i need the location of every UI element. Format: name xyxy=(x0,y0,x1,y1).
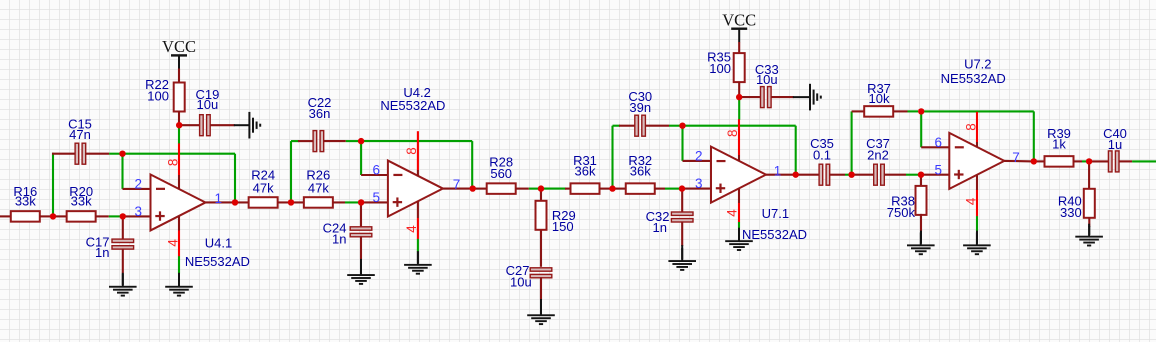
U7.2 pin 8 xyxy=(976,112,978,142)
junction xyxy=(679,123,685,129)
wire stub C15 right xyxy=(85,153,109,155)
capacitor C27 xyxy=(530,268,552,271)
op-amp U4.2 xyxy=(388,161,443,217)
svg-text:8: 8 xyxy=(166,159,181,167)
wire node N feedback right xyxy=(921,110,1034,112)
svg-text:10u: 10u xyxy=(197,97,219,112)
svg-text:1k: 1k xyxy=(1052,136,1066,151)
wire C19 to ground xyxy=(210,124,235,126)
wire R29 to C27 xyxy=(540,231,542,267)
svg-text:1: 1 xyxy=(774,163,782,178)
U7.1 pin 4 xyxy=(738,188,740,203)
wire output net xyxy=(1132,160,1156,162)
svg-text:8: 8 xyxy=(404,147,419,155)
junction xyxy=(288,199,294,205)
wire into pin 6 xyxy=(361,174,388,176)
svg-text:1: 1 xyxy=(215,191,223,206)
ground for C32 xyxy=(681,245,683,259)
capacitor C30 xyxy=(635,115,639,136)
svg-text:560: 560 xyxy=(490,166,512,181)
svg-text:330: 330 xyxy=(1060,205,1082,220)
wire node H down to R29 xyxy=(540,189,542,203)
capacitor C17 xyxy=(112,239,134,242)
wire VCC to R22 xyxy=(178,69,180,84)
svg-text:4: 4 xyxy=(724,209,739,217)
svg-text:4: 4 xyxy=(165,239,180,247)
wire R16 to node A xyxy=(40,215,51,217)
wire node M up to R37 xyxy=(851,111,853,174)
svg-text:U7.2: U7.2 xyxy=(964,56,991,71)
svg-text:47n: 47n xyxy=(69,127,91,142)
svg-text:NE5532AD: NE5532AD xyxy=(380,98,445,113)
svg-text:10u: 10u xyxy=(510,274,532,289)
resistor R39 xyxy=(1045,156,1074,167)
wire R35 to node L xyxy=(738,82,740,96)
svg-text:U7.1: U7.1 xyxy=(762,206,789,221)
junction xyxy=(358,199,364,205)
wire to R39 xyxy=(1034,160,1045,162)
junction xyxy=(176,122,182,128)
resistor R38 xyxy=(916,186,927,215)
wire stub C40 right xyxy=(1119,160,1132,162)
wire pin 4 to ground xyxy=(417,239,419,252)
capacitor C37 xyxy=(874,164,878,185)
resistor R29 xyxy=(536,201,547,230)
svg-text:47k: 47k xyxy=(308,181,329,196)
wire into pin 5 xyxy=(921,174,949,176)
resistor R28 xyxy=(487,183,516,194)
junction xyxy=(918,108,924,114)
svg-text:1n: 1n xyxy=(95,245,109,260)
ground for R40 xyxy=(1088,226,1090,235)
svg-text:36k: 36k xyxy=(630,164,651,179)
U4.1 pin 1 xyxy=(206,201,236,203)
wire R37 right xyxy=(893,110,907,112)
wire green to node C xyxy=(109,215,121,217)
svg-text:1n: 1n xyxy=(653,220,667,235)
ground for C24 xyxy=(360,259,362,274)
svg-text:VCC: VCC xyxy=(722,10,756,29)
wire green to node K xyxy=(665,188,679,190)
wire green to node G xyxy=(345,201,359,203)
U7.1 pin 1 xyxy=(766,174,796,176)
wire node K down to C32 xyxy=(681,189,683,213)
resistor R31 xyxy=(571,183,600,194)
capacitor C24 xyxy=(350,227,372,230)
svg-text:750k: 750k xyxy=(887,205,916,220)
wire node P to C40 xyxy=(1089,160,1108,162)
wire node B down to pin2 xyxy=(121,154,123,189)
ground for C17 xyxy=(122,273,124,285)
wire stub C30 right xyxy=(645,125,669,127)
svg-text:3: 3 xyxy=(134,204,142,219)
wire feedback down to output xyxy=(795,126,797,175)
wire C15 to node B xyxy=(109,153,122,155)
wire node P down to R40 xyxy=(1088,161,1090,189)
wire VCC to R35 xyxy=(738,42,740,54)
wire node M to C37 xyxy=(852,174,874,176)
capacitor C15 xyxy=(75,143,79,164)
wire node B feedback to output xyxy=(123,153,236,155)
svg-text:10k: 10k xyxy=(869,91,890,106)
svg-text:2n2: 2n2 xyxy=(867,148,889,163)
wire green to node O xyxy=(906,174,918,176)
wire into pin 2 xyxy=(683,160,712,162)
wire green to node P xyxy=(1082,160,1087,162)
wire C22 to node F xyxy=(346,140,361,142)
ground for C27 xyxy=(540,299,542,314)
U4.1 pin 8 xyxy=(178,143,180,175)
svg-text:1n: 1n xyxy=(332,232,346,247)
op-amp U7.1 xyxy=(711,147,766,203)
resistor R22 xyxy=(174,83,185,112)
wire node F feedback right xyxy=(361,140,472,142)
wire node H to R31 xyxy=(543,188,566,190)
junction xyxy=(470,185,476,191)
junction xyxy=(736,94,742,100)
wire stub C22 left xyxy=(291,140,299,142)
resistor R24 xyxy=(249,197,278,208)
svg-text:6: 6 xyxy=(934,135,942,150)
ground for U4.2 pin 4 xyxy=(417,251,419,263)
op-amp U7.2 xyxy=(949,133,1004,189)
junction xyxy=(793,171,799,177)
capacitor C19 xyxy=(200,115,204,136)
wire C24 to ground xyxy=(360,236,362,259)
svg-text:8: 8 xyxy=(963,123,978,131)
wire green to node N xyxy=(908,110,919,112)
capacitor C32 xyxy=(671,212,693,215)
wire node F down to pin 6 xyxy=(360,141,362,175)
wire input net xyxy=(0,215,11,217)
U7.1 pin 8 xyxy=(738,119,740,155)
svg-text:2: 2 xyxy=(134,177,142,192)
ground for U7.1 pin 4 xyxy=(738,228,740,240)
wire node A to R20 xyxy=(53,215,67,217)
svg-text:7: 7 xyxy=(453,177,461,192)
wire into R37 xyxy=(852,110,865,112)
junction xyxy=(232,199,238,205)
U7.2 pin 4 xyxy=(976,175,978,190)
wire R31 to node I xyxy=(600,188,612,190)
resistor R35 xyxy=(734,53,745,82)
svg-text:100: 100 xyxy=(709,61,731,76)
junction xyxy=(538,185,544,191)
svg-text:10u: 10u xyxy=(756,72,778,87)
wire into pin 6 xyxy=(921,146,949,148)
wire pin 4 to ground xyxy=(178,256,180,273)
wire R38 to ground xyxy=(920,214,922,231)
svg-text:4: 4 xyxy=(404,225,419,233)
wire node J feedback right xyxy=(683,125,796,127)
svg-text:U4.1: U4.1 xyxy=(205,236,232,251)
wire green to node H xyxy=(529,188,539,190)
wire R22 to node D xyxy=(178,111,180,124)
wire C17 to ground xyxy=(122,249,124,274)
wire node L down to pin 8 xyxy=(738,98,740,120)
svg-text:5: 5 xyxy=(934,162,942,177)
wire pin 4 to ground xyxy=(976,216,978,231)
U7.2 pin 7 xyxy=(1004,160,1034,163)
junction xyxy=(848,172,854,178)
capacitor C22 xyxy=(313,131,317,152)
wire R40 to ground xyxy=(1088,217,1090,227)
resistor R37 xyxy=(864,106,893,117)
ground for U4.1 pin 4 xyxy=(178,273,180,285)
wire node N down to pin 6 xyxy=(920,111,922,147)
svg-text:36k: 36k xyxy=(575,164,596,179)
svg-text:5: 5 xyxy=(372,190,380,205)
op-amp U4.1 xyxy=(151,174,206,230)
wire node D down to pin 8 xyxy=(178,126,180,144)
capacitor C33 xyxy=(761,87,765,108)
wire node E up to C22 xyxy=(290,141,292,202)
wire node I to R32 xyxy=(613,188,626,190)
wire node I up to C30 xyxy=(611,126,613,189)
wire node E to R26 xyxy=(291,201,304,203)
wire C27 to ground xyxy=(540,277,542,300)
wire R24 right xyxy=(278,201,288,203)
wire stage1 out to R24 xyxy=(235,201,249,203)
wire C30 to node J xyxy=(669,125,681,127)
resistor R32 xyxy=(626,183,655,194)
svg-text:2: 2 xyxy=(695,149,703,164)
wire stage3 out to C35 xyxy=(796,174,820,176)
wire node O down to R38 xyxy=(920,175,922,188)
wire stub C15 left xyxy=(52,153,75,155)
wire feedback down to output node xyxy=(234,154,236,203)
wire into pin 5 xyxy=(361,201,388,203)
svg-text:33k: 33k xyxy=(15,194,36,209)
svg-text:39n: 39n xyxy=(629,100,651,115)
ground for R38 xyxy=(920,231,922,244)
wire R28 right xyxy=(516,188,529,190)
svg-text:NE5532AD: NE5532AD xyxy=(941,71,1006,86)
wire C33 to ground xyxy=(771,96,794,98)
wire stub C30 left xyxy=(613,125,621,127)
junction xyxy=(119,151,125,157)
ground for C19 xyxy=(234,124,249,126)
junction xyxy=(1031,158,1037,164)
wire R32 right xyxy=(655,188,665,190)
resistor R16 xyxy=(11,211,40,222)
svg-text:0.1: 0.1 xyxy=(813,148,831,163)
junction xyxy=(918,172,924,178)
wire node A up to C15 xyxy=(52,153,54,218)
wire stage2 out to R28 xyxy=(473,188,487,190)
wire node J down to pin 2 xyxy=(681,126,683,161)
junction xyxy=(120,213,126,219)
wire into pin 3 xyxy=(123,215,151,217)
svg-text:3: 3 xyxy=(695,176,703,191)
wire node G down to C24 xyxy=(360,202,362,227)
wire C32 to ground xyxy=(681,222,683,246)
junction xyxy=(1086,158,1092,164)
svg-text:36n: 36n xyxy=(309,106,331,121)
wire R26 right xyxy=(333,201,345,203)
U4.2 pin 7 xyxy=(443,188,473,190)
svg-text:47k: 47k xyxy=(253,181,274,196)
capacitor C40 xyxy=(1108,151,1112,172)
svg-text:100: 100 xyxy=(147,89,169,104)
svg-text:6: 6 xyxy=(372,163,380,178)
capacitor C35 xyxy=(819,164,823,185)
U4.2 pin 8 xyxy=(417,131,419,170)
wire R39 right xyxy=(1074,160,1083,162)
junction xyxy=(358,138,364,144)
svg-text:8: 8 xyxy=(725,129,740,137)
ground for U7.2 pin 4 xyxy=(976,231,978,244)
ground for C33 xyxy=(793,96,810,98)
wire stub C19 left xyxy=(179,124,200,126)
svg-text:NE5532AD: NE5532AD xyxy=(185,254,250,269)
svg-text:1u: 1u xyxy=(1108,137,1122,152)
svg-text:7: 7 xyxy=(1012,150,1020,165)
resistor R20 xyxy=(67,211,96,222)
wire green to node M xyxy=(845,174,849,176)
U4.2 pin 4 xyxy=(417,201,419,218)
junction xyxy=(609,185,615,191)
resistor R40 xyxy=(1084,189,1095,218)
wire stub C33 left xyxy=(739,96,760,98)
wire into pin 3 xyxy=(682,188,711,190)
svg-text:33k: 33k xyxy=(71,194,92,209)
wire R20 right xyxy=(96,215,109,217)
wire feedback down to output xyxy=(1033,111,1035,161)
wire pin 4 to ground xyxy=(738,222,740,229)
junction xyxy=(50,213,56,219)
wire feedback down to output xyxy=(471,141,473,188)
resistor R26 xyxy=(304,197,333,208)
svg-text:150: 150 xyxy=(552,219,574,234)
wire node C down to C17 xyxy=(122,216,124,239)
wire stub C22 right xyxy=(323,140,345,142)
U4.1 pin 4 xyxy=(178,216,180,231)
svg-text:4: 4 xyxy=(964,197,979,205)
wire stub C37 right xyxy=(884,174,906,176)
svg-text:VCC: VCC xyxy=(162,37,196,56)
junction xyxy=(679,185,685,191)
wire into pin 2 xyxy=(123,188,151,190)
wire stub C35 right xyxy=(829,174,845,176)
svg-text:NE5532AD: NE5532AD xyxy=(742,227,807,242)
